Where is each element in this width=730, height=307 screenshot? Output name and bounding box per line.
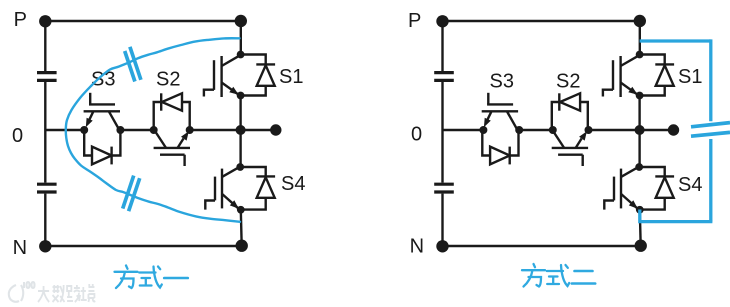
wire: blue loop bottom segment (method 2): [640, 210, 713, 222]
node: S2 right junction dot (right circuit): [585, 126, 593, 134]
capacitor C1 (P-0 dc-link cap, left circuit): [37, 73, 57, 81]
wire: blue loop right vertical upper segment (method 2): [709, 39, 712, 121]
diode of S4 (antiparallel, left circuit): [240, 167, 275, 210]
wire: left DC-link rail vertical (upper segment P to C1): [44, 21, 46, 71]
wire: midpoint down to S4 collector (right): [638, 130, 640, 167]
wire: 0 bus S3 to S2 (left): [120, 129, 153, 131]
diode of S4 (antiparallel, right circuit): [639, 167, 674, 210]
wire: output stub (left): [241, 129, 274, 131]
capacitor C2 (0-N dc-link cap, left circuit): [37, 184, 57, 192]
wire: 0 bus S2 to midpoint (left): [190, 129, 241, 131]
node: S3 right junction dot: [116, 126, 124, 134]
wire: P node down to S1 collector (left): [240, 21, 242, 55]
wire: output stub (right): [640, 129, 672, 131]
node: bottom-right junction dot left circuit: [236, 240, 248, 252]
wire: right rail middle segment: [441, 82, 443, 183]
wire: blue loop right vertical lower segment (method 2): [709, 139, 712, 222]
node: S4 collector junction dot (left): [236, 163, 244, 171]
svg-text:N: N: [410, 236, 424, 258]
diode of S3 (antiparallel, right circuit): [482, 130, 518, 164]
svg-text:S3: S3: [490, 71, 514, 93]
node: N corner junction dot right: [436, 240, 448, 252]
wire: blue loop top segment (method 2): [640, 39, 711, 42]
node: AC output terminal dot (left): [270, 124, 281, 135]
wire: left top bus P rail: [45, 20, 241, 22]
svg-text:0: 0: [411, 124, 422, 146]
transistor S3 IGBT (right circuit): [482, 93, 518, 129]
svg-text:0: 0: [12, 125, 23, 147]
transistor S3 IGBT (left circuit): [84, 93, 120, 129]
diode of S1 (antiparallel, left circuit): [241, 55, 276, 96]
capacitor C3 (P-0 dc-link cap, right circuit): [434, 73, 454, 81]
wire: 0 bus S3 to S2 (right): [519, 129, 553, 131]
node: S1 collector junction dot (right): [636, 51, 644, 59]
diode of S2 (top branch, left circuit): [154, 93, 190, 130]
svg-text:S2: S2: [156, 69, 180, 91]
wire: left rail lower segment (C2 to N): [44, 194, 46, 246]
node: S1 collector junction dot (left): [237, 51, 245, 59]
node: S2 left junction dot (right circuit): [549, 126, 557, 134]
wire: blue commutation loop path (method 1, hand-drawn): [66, 38, 240, 222]
capacitor: blue output cap symbol (method 2): [691, 123, 730, 137]
capacitor C4 (0-N dc-link cap, right circuit): [434, 184, 454, 192]
wire: S1 emitter to midpoint node (right): [638, 96, 640, 131]
wire: right bottom bus N rail: [443, 245, 641, 247]
wire: left rail middle segment (C1 to C2): [44, 82, 46, 183]
label caption method two (blue CJK drawn as strokes): [522, 264, 595, 287]
node: P corner junction dot right: [436, 15, 448, 27]
transistor S2 IGBT (right circuit): [552, 131, 588, 167]
node: S1 emitter junction dot (right): [636, 92, 644, 100]
wire: right top bus P rail: [443, 20, 640, 22]
node: S4 emitter junction dot (left): [237, 206, 245, 214]
node: S1 emitter junction dot (left): [237, 92, 245, 100]
node: S4 collector junction dot (right): [635, 163, 643, 171]
transistor S1 IGBT (left circuit): [204, 56, 240, 97]
wire: 0 bus S2 to midpoint (right): [589, 129, 640, 131]
wire: right rail lower segment: [441, 194, 443, 246]
node: top-right junction dot right circuit: [634, 15, 646, 27]
wire: left bottom bus N rail: [45, 245, 241, 247]
diode of S3 (antiparallel, left circuit): [84, 130, 120, 164]
wire: S4 emitter down to N rail (right): [639, 210, 642, 246]
wire: S1 emitter to midpoint node (left): [239, 96, 241, 131]
node: S3 left junction dot: [80, 126, 88, 134]
diode of S2 (top branch, right circuit): [552, 93, 588, 130]
transistor S4 IGBT (right circuit): [604, 168, 638, 210]
node: bottom-right junction dot right circuit: [635, 240, 647, 252]
node: S4 emitter junction dot (right): [636, 206, 644, 214]
svg-text:P: P: [14, 9, 27, 31]
transistor S2 IGBT (left circuit): [154, 131, 190, 167]
wire: S4 emitter down to N rail (left): [240, 210, 243, 246]
label caption method one (blue CJK drawn as strokes): [115, 266, 188, 289]
svg-text:S2: S2: [556, 71, 580, 93]
svg-text:N: N: [13, 237, 27, 259]
svg-text:S1: S1: [678, 66, 702, 88]
node: S2 left junction dot: [150, 126, 158, 134]
node: S2 right junction dot: [186, 126, 194, 134]
svg-text:S4: S4: [678, 174, 702, 196]
svg-text:S3: S3: [91, 69, 115, 91]
node: top-right junction dot left circuit: [235, 15, 247, 27]
node: S3 right junction dot (right circuit): [515, 126, 523, 134]
node: phase midpoint junction dot (left): [236, 125, 246, 135]
node: AC output terminal dot (right): [668, 124, 679, 135]
transistor S1 IGBT (right circuit): [603, 56, 639, 97]
transistor S4 IGBT (left circuit): [205, 168, 239, 210]
svg-text:P: P: [408, 10, 421, 32]
node: N corner junction dot left: [39, 240, 51, 252]
wire: 0 bus from rail to S3 (right): [443, 129, 484, 131]
node: phase midpoint junction dot (right): [635, 125, 645, 135]
wire: 0 bus from rail to S3 (left): [45, 129, 84, 131]
wire: right DC-link rail vertical (upper segment): [441, 21, 443, 71]
wire: P node down to S1 collector (right): [639, 21, 641, 55]
svg-text:S4: S4: [281, 173, 305, 195]
node: S3 left junction dot (right circuit): [479, 126, 487, 134]
node: P corner junction dot left: [39, 15, 51, 27]
wire: midpoint down to S4 collector (left): [239, 130, 241, 167]
diode of S1 (antiparallel, right circuit): [640, 55, 675, 96]
capacitor: blue parasitic cap symbol lower (method 1): [123, 176, 140, 212]
svg-text:S1: S1: [279, 66, 303, 88]
capacitor: blue parasitic cap symbol upper (method 1): [125, 47, 141, 82]
